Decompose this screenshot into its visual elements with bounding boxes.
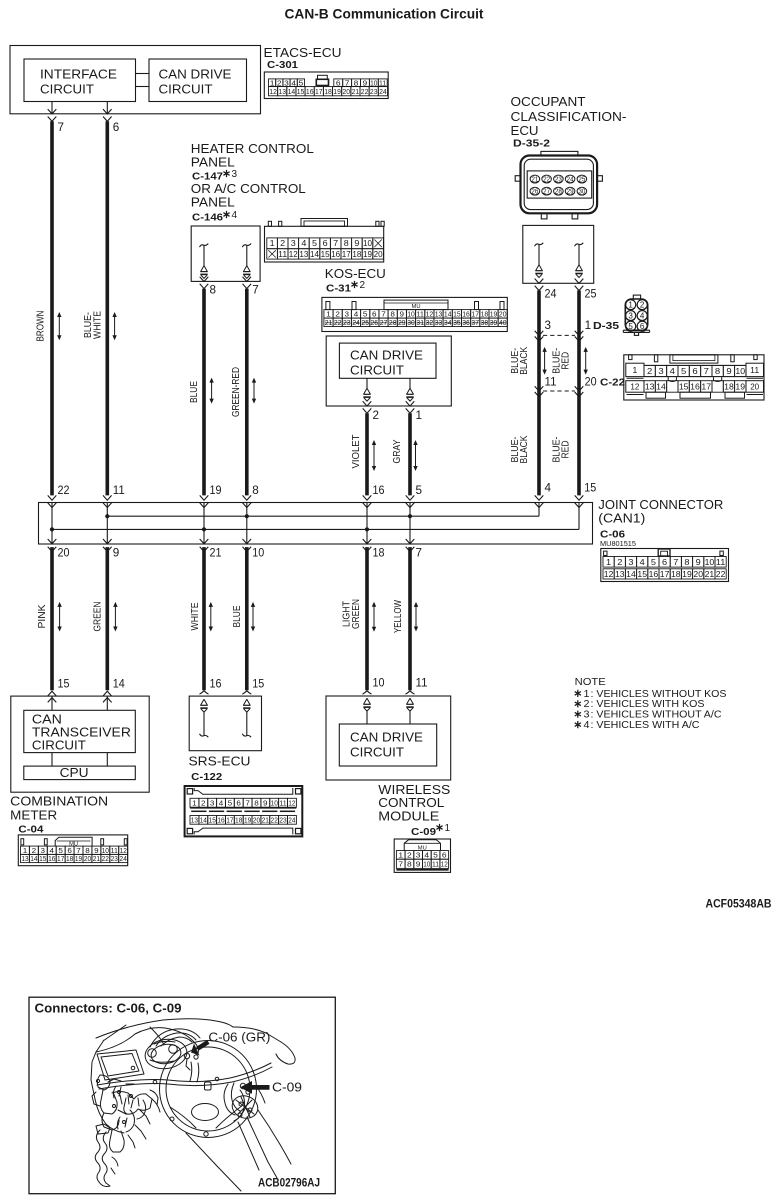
- svg-text:16: 16: [649, 570, 659, 579]
- wire interface to can drive: [136, 73, 150, 75]
- svg-text:C-31: C-31: [326, 283, 351, 295]
- svg-text:MU801515: MU801515: [600, 541, 636, 548]
- svg-text:17: 17: [660, 570, 670, 579]
- connector C-122: [185, 786, 303, 836]
- svg-text:: VEHICLES WITH A/C: : VEHICLES WITH A/C: [591, 719, 700, 731]
- svg-text:INTERFACE: INTERFACE: [40, 68, 117, 82]
- svg-text:3: 3: [291, 239, 297, 248]
- svg-text:CAN DRIVE: CAN DRIVE: [350, 349, 423, 363]
- svg-text:20: 20: [693, 570, 703, 579]
- svg-text:34: 34: [444, 318, 452, 327]
- svg-text:9: 9: [416, 860, 421, 869]
- svg-text:22: 22: [716, 570, 726, 579]
- svg-text:7: 7: [333, 239, 339, 248]
- svg-text:OCCUPANT: OCCUPANT: [511, 94, 586, 109]
- svg-text:25: 25: [585, 288, 597, 300]
- wire into SRS pin 16: [200, 691, 209, 694]
- svg-text:22: 22: [334, 318, 342, 327]
- svg-text:4: 4: [424, 851, 429, 860]
- svg-text:40: 40: [499, 318, 507, 327]
- svg-text:22: 22: [58, 485, 70, 497]
- svg-text:1: 1: [416, 410, 423, 422]
- wire BLUE-BLACK col7 upper: [537, 291, 541, 496]
- wire bottom col x=410: [408, 547, 412, 690]
- wire BLUE-RED col8 upper: [577, 291, 581, 496]
- arrow to C-06: [196, 1040, 210, 1051]
- svg-text:27: 27: [543, 187, 550, 196]
- svg-text:12: 12: [441, 860, 448, 869]
- wire into combination meter pin 14: [103, 691, 112, 696]
- svg-text:19: 19: [363, 250, 373, 259]
- svg-text:15: 15: [58, 678, 70, 690]
- svg-text:C-22: C-22: [600, 376, 625, 388]
- svg-text:6: 6: [113, 122, 120, 134]
- svg-text:19: 19: [333, 87, 341, 96]
- svg-text:24: 24: [352, 318, 360, 327]
- connector D-35-2: [541, 151, 578, 155]
- svg-text:18: 18: [66, 854, 73, 863]
- svg-text:19: 19: [682, 570, 692, 579]
- svg-text:2: 2: [373, 410, 380, 422]
- wireless can drive circuit box: [339, 724, 436, 766]
- SRS-ECU box: [189, 696, 261, 751]
- svg-text:TRANSCEIVER: TRANSCEIVER: [32, 726, 131, 740]
- cpu box: [24, 766, 136, 780]
- svg-text:4: 4: [219, 798, 224, 807]
- svg-text:5: 5: [681, 366, 687, 376]
- svg-text:23: 23: [370, 87, 378, 96]
- svg-text:10: 10: [423, 860, 430, 869]
- svg-text:23: 23: [279, 816, 286, 825]
- svg-text:16: 16: [331, 250, 341, 259]
- svg-text:19: 19: [735, 382, 745, 392]
- svg-text:16: 16: [690, 382, 700, 392]
- svg-text:10: 10: [271, 798, 278, 807]
- wire BLUE-WHITE col2: [106, 121, 110, 495]
- svg-text:13: 13: [615, 570, 625, 579]
- svg-text:11: 11: [545, 376, 557, 388]
- svg-text:21: 21: [93, 854, 100, 863]
- svg-text:24: 24: [545, 288, 558, 300]
- svg-text:METER: METER: [10, 808, 57, 823]
- svg-text:D-35-2: D-35-2: [513, 137, 550, 149]
- svg-text:18: 18: [324, 87, 332, 96]
- svg-text:2: 2: [201, 798, 206, 807]
- svg-text:3: 3: [416, 851, 421, 860]
- connector C-06: [601, 549, 729, 582]
- svg-text:27: 27: [380, 318, 388, 327]
- svg-text:2: 2: [640, 301, 645, 310]
- svg-text:5: 5: [416, 485, 423, 497]
- can drive circuit box (ETACS): [149, 59, 247, 102]
- wire occupant pin 24: [535, 279, 544, 284]
- dashboard illustration: [91, 1019, 295, 1191]
- svg-text:BLACK: BLACK: [519, 435, 530, 463]
- wire KOS pin 2: [363, 401, 372, 406]
- svg-text:28: 28: [389, 318, 397, 327]
- occupant ecu lower box: [523, 225, 594, 283]
- svg-text:19: 19: [210, 485, 222, 497]
- occupant terminator right: [575, 243, 584, 247]
- svg-text:14: 14: [30, 854, 37, 863]
- svg-text:18: 18: [352, 250, 362, 259]
- svg-text:9: 9: [696, 558, 702, 567]
- svg-text:VIOLET: VIOLET: [351, 435, 362, 469]
- svg-text:20: 20: [84, 854, 91, 863]
- svg-text:C-09: C-09: [411, 826, 436, 838]
- svg-text:1: 1: [445, 823, 451, 834]
- svg-text:6: 6: [692, 366, 698, 376]
- svg-text:GRAY: GRAY: [392, 439, 403, 463]
- svg-text:39: 39: [490, 318, 498, 327]
- svg-text:11: 11: [750, 365, 759, 375]
- svg-text:CIRCUIT: CIRCUIT: [32, 739, 86, 753]
- svg-text:20: 20: [374, 250, 384, 259]
- joint connector box: [39, 503, 593, 545]
- joint wire pin 4 stub: [538, 503, 540, 517]
- wire bottom col x=367: [365, 547, 369, 690]
- ETACS-ECU outer box: [10, 46, 261, 114]
- svg-text:30: 30: [578, 187, 585, 196]
- svg-text:10: 10: [252, 548, 264, 560]
- svg-text:6: 6: [323, 239, 329, 248]
- svg-text:PANEL: PANEL: [191, 155, 235, 170]
- CAN bus lower line: [52, 528, 579, 530]
- svg-text:15: 15: [252, 678, 264, 690]
- optional section dashed top: [543, 334, 575, 336]
- joint pass-through wire pin 10: [246, 503, 248, 545]
- KOS can drive circuit inner box: [339, 343, 436, 378]
- wire heater pin 7: [243, 277, 252, 282]
- svg-text:7: 7: [398, 860, 403, 869]
- svg-text:1: 1: [628, 301, 633, 310]
- svg-text:GREEN: GREEN: [351, 599, 362, 629]
- joint pass-through wire pin 21: [203, 503, 205, 545]
- svg-text:11: 11: [432, 860, 439, 869]
- svg-text:CAN DRIVE: CAN DRIVE: [159, 68, 232, 82]
- svg-text:8: 8: [684, 558, 690, 567]
- KOS terminator right: [409, 378, 411, 388]
- svg-text:BROWN: BROWN: [36, 311, 47, 342]
- svg-text:15: 15: [679, 382, 689, 392]
- svg-text:GREEN-RED: GREEN-RED: [231, 367, 242, 417]
- svg-text:37: 37: [471, 318, 479, 327]
- svg-text:24: 24: [379, 87, 387, 96]
- svg-text:GREEN: GREEN: [93, 602, 104, 632]
- svg-text:NOTE: NOTE: [575, 676, 606, 688]
- svg-text:18: 18: [373, 548, 385, 560]
- svg-text:18: 18: [724, 382, 734, 392]
- svg-text:17: 17: [315, 87, 323, 96]
- svg-text:14: 14: [113, 678, 126, 690]
- svg-text:17: 17: [342, 250, 352, 259]
- wire occupant pin 25: [575, 279, 584, 284]
- wire KOS pin 1: [406, 401, 415, 406]
- occupant terminator left: [535, 243, 544, 247]
- svg-text:3: 3: [210, 798, 215, 807]
- wire VIOLET col5: [365, 413, 369, 495]
- svg-text:3: 3: [545, 320, 552, 332]
- joint pass-through wire pin 18: [366, 503, 368, 545]
- wire into combination meter pin 15: [48, 691, 57, 696]
- svg-text:22: 22: [102, 854, 109, 863]
- svg-text:CIRCUIT: CIRCUIT: [159, 83, 213, 97]
- svg-text:4: 4: [545, 482, 552, 494]
- connector C-31: [322, 297, 507, 331]
- svg-text:9: 9: [263, 798, 268, 807]
- SRS terminator left: [201, 699, 208, 705]
- svg-text:ECU: ECU: [511, 123, 539, 138]
- wire bottom col x=246.8: [245, 547, 249, 690]
- connector C-301: [264, 72, 388, 99]
- svg-text:21: 21: [325, 318, 333, 327]
- bus junction dots: [105, 514, 109, 518]
- svg-text:C-146: C-146: [192, 212, 223, 224]
- svg-text:ACB02796AJ: ACB02796AJ: [258, 1178, 320, 1190]
- arrow to C-09: [252, 1085, 270, 1090]
- svg-text:11: 11: [113, 485, 125, 497]
- svg-text:COMBINATION: COMBINATION: [10, 794, 108, 809]
- svg-text:17: 17: [226, 816, 233, 825]
- svg-text:20: 20: [343, 87, 351, 96]
- svg-text:1: 1: [632, 365, 637, 375]
- svg-text:6: 6: [236, 798, 241, 807]
- joint connector top pin 4: [535, 495, 544, 500]
- svg-text:28: 28: [555, 187, 562, 196]
- svg-text:PANEL: PANEL: [191, 194, 235, 209]
- svg-text:5: 5: [651, 558, 657, 567]
- svg-text:MU: MU: [69, 841, 78, 847]
- svg-text:8: 8: [344, 239, 350, 248]
- svg-text:30: 30: [407, 318, 415, 327]
- svg-text:14: 14: [288, 87, 296, 96]
- svg-text:12: 12: [630, 381, 639, 391]
- wire ETACS pin 6: [106, 102, 108, 114]
- svg-text:RED: RED: [561, 441, 572, 459]
- KOS terminator left: [366, 378, 368, 388]
- connector D-35: [633, 295, 640, 299]
- svg-text:21: 21: [352, 87, 360, 96]
- svg-text:29: 29: [567, 187, 574, 196]
- svg-text:13: 13: [645, 382, 655, 392]
- svg-text:C-06 (GR): C-06 (GR): [208, 1031, 270, 1045]
- wire bottom col x=107.3: [106, 547, 110, 690]
- svg-text:31: 31: [416, 318, 424, 327]
- svg-text:2: 2: [617, 558, 623, 567]
- svg-text:MODULE: MODULE: [378, 808, 439, 823]
- terminator in heater box right: [242, 244, 251, 248]
- svg-text:BLACK: BLACK: [519, 347, 530, 375]
- svg-text:36: 36: [462, 318, 470, 327]
- svg-text:4: 4: [670, 366, 676, 376]
- wire ETACS pin 7: [51, 102, 53, 114]
- svg-text:15: 15: [584, 482, 596, 494]
- wire into SRS pin 15: [242, 691, 251, 694]
- connector C-09: [394, 839, 450, 872]
- svg-text:20: 20: [750, 381, 759, 391]
- svg-text:D-35: D-35: [593, 320, 619, 332]
- svg-text:2: 2: [407, 851, 412, 860]
- svg-text:22: 22: [543, 175, 550, 184]
- svg-text:8: 8: [254, 798, 259, 807]
- svg-text:18: 18: [235, 816, 242, 825]
- svg-text:3: 3: [628, 312, 633, 321]
- wire bottom col x=204: [202, 547, 206, 690]
- svg-text:16: 16: [217, 816, 224, 825]
- wire GRAY col6: [408, 413, 412, 495]
- svg-text:3: 3: [658, 366, 664, 376]
- svg-text:7: 7: [252, 285, 258, 297]
- svg-text:C-122: C-122: [191, 771, 222, 783]
- svg-text:13: 13: [191, 816, 198, 825]
- svg-text:KOS-ECU: KOS-ECU: [325, 266, 386, 281]
- svg-text:19: 19: [244, 816, 251, 825]
- optional section dashed bottom: [543, 390, 575, 392]
- svg-text:5: 5: [433, 851, 438, 860]
- svg-text:1: 1: [192, 798, 197, 807]
- svg-text:6: 6: [442, 851, 447, 860]
- svg-text:10: 10: [363, 239, 373, 248]
- svg-text:25: 25: [361, 318, 369, 327]
- svg-text:25: 25: [578, 175, 585, 184]
- svg-text:MU: MU: [412, 304, 421, 310]
- svg-text:1: 1: [585, 320, 592, 332]
- svg-text:5: 5: [312, 239, 318, 248]
- svg-text:2: 2: [280, 239, 286, 248]
- svg-text:26: 26: [531, 187, 538, 196]
- svg-text:26: 26: [371, 318, 379, 327]
- svg-text:4: 4: [232, 210, 238, 221]
- svg-text:PINK: PINK: [37, 604, 48, 628]
- svg-text:11: 11: [278, 250, 288, 259]
- svg-text:10: 10: [373, 677, 385, 689]
- connector location figure box: [29, 997, 335, 1193]
- svg-text:ACF05348AB: ACF05348AB: [706, 899, 772, 911]
- svg-text:8: 8: [715, 366, 721, 376]
- svg-text:6: 6: [662, 558, 668, 567]
- svg-text:15: 15: [321, 250, 331, 259]
- joint pass-through wire pin 7: [409, 503, 411, 545]
- heater control panel box: [191, 226, 260, 281]
- svg-text:21: 21: [210, 548, 222, 560]
- connector C-147/C-146: [265, 226, 384, 262]
- svg-text:3: 3: [232, 169, 238, 180]
- svg-text:3: 3: [628, 558, 634, 567]
- wire BLUE col3: [202, 289, 206, 496]
- svg-text:C-06: C-06: [600, 529, 625, 541]
- svg-text:12: 12: [269, 87, 277, 96]
- svg-text:15: 15: [637, 570, 647, 579]
- svg-text:13: 13: [21, 854, 28, 863]
- svg-text:23: 23: [343, 318, 351, 327]
- svg-text:20: 20: [58, 548, 70, 560]
- svg-text:1: 1: [270, 239, 276, 248]
- wire into wireless pin 10: [363, 691, 372, 694]
- KOS can drive circuit outer box: [326, 336, 451, 406]
- svg-text:WHITE: WHITE: [92, 311, 103, 339]
- svg-text:5: 5: [628, 322, 633, 331]
- svg-text:24: 24: [288, 816, 295, 825]
- svg-text:11: 11: [279, 798, 286, 807]
- svg-text:38: 38: [481, 318, 489, 327]
- svg-text:BLUE: BLUE: [189, 381, 200, 403]
- svg-text:7: 7: [704, 366, 710, 376]
- svg-text:22: 22: [361, 87, 369, 96]
- svg-text:24: 24: [120, 854, 127, 863]
- svg-text:20: 20: [253, 816, 260, 825]
- svg-text:12: 12: [288, 798, 295, 807]
- interface circuit box: [24, 59, 136, 102]
- svg-text:12: 12: [289, 250, 299, 259]
- svg-text:13: 13: [278, 87, 286, 96]
- svg-text:CIRCUIT: CIRCUIT: [350, 746, 404, 760]
- svg-text:8: 8: [210, 285, 217, 297]
- svg-text:CAN: CAN: [32, 713, 62, 727]
- svg-text:8: 8: [407, 860, 412, 869]
- svg-text:11: 11: [716, 558, 726, 567]
- svg-text:18: 18: [671, 570, 681, 579]
- svg-text:1: 1: [606, 558, 612, 567]
- svg-text:CLASSIFICATION-: CLASSIFICATION-: [511, 109, 627, 124]
- svg-text:C-09: C-09: [272, 1081, 302, 1095]
- svg-text:11: 11: [416, 677, 428, 689]
- svg-text:14: 14: [200, 816, 207, 825]
- svg-text:16: 16: [306, 87, 314, 96]
- svg-text:SRS-ECU: SRS-ECU: [189, 753, 251, 768]
- CAN bus upper line: [107, 515, 539, 517]
- svg-text:C-301: C-301: [267, 59, 298, 71]
- wire GREEN-RED col4: [245, 289, 249, 496]
- svg-text:5: 5: [228, 798, 233, 807]
- can transceiver circuit box: [24, 710, 136, 752]
- joint wire pin 15 stub: [578, 503, 580, 530]
- svg-text:9: 9: [113, 548, 120, 560]
- wireless terminator left: [364, 698, 371, 704]
- wires transceiver to cpu: [51, 753, 53, 767]
- svg-text:14: 14: [626, 570, 636, 579]
- svg-text:Connectors: C-06, C-09: Connectors: C-06, C-09: [35, 1002, 182, 1016]
- connector C-04: [18, 835, 127, 866]
- wireless control module box: [326, 696, 451, 780]
- wireless terminator right: [407, 698, 414, 704]
- svg-text:29: 29: [398, 318, 406, 327]
- svg-text:16: 16: [210, 678, 222, 690]
- wire BROWN col1: [50, 121, 54, 495]
- wire into wireless pin 11: [406, 691, 415, 694]
- svg-text:21: 21: [531, 175, 538, 184]
- svg-text:23: 23: [111, 854, 118, 863]
- svg-text:15: 15: [297, 87, 305, 96]
- svg-text:21: 21: [262, 816, 269, 825]
- svg-text:10: 10: [705, 558, 715, 567]
- svg-text:14: 14: [310, 250, 320, 259]
- svg-text:CPU: CPU: [60, 766, 89, 780]
- svg-text:14: 14: [656, 382, 666, 392]
- svg-text:WHITE: WHITE: [190, 602, 201, 630]
- svg-text:12: 12: [604, 570, 614, 579]
- svg-text:10: 10: [735, 366, 745, 376]
- SRS terminator right: [243, 699, 250, 705]
- svg-text:20: 20: [585, 376, 597, 388]
- wire bottom col x=52: [50, 547, 54, 690]
- svg-text:17: 17: [57, 854, 64, 863]
- svg-text:7: 7: [673, 558, 679, 567]
- svg-text:(CAN1): (CAN1): [598, 510, 645, 525]
- svg-text:13: 13: [299, 250, 309, 259]
- svg-text:15: 15: [39, 854, 46, 863]
- svg-text:2: 2: [360, 280, 366, 291]
- svg-text:CIRCUIT: CIRCUIT: [350, 364, 404, 378]
